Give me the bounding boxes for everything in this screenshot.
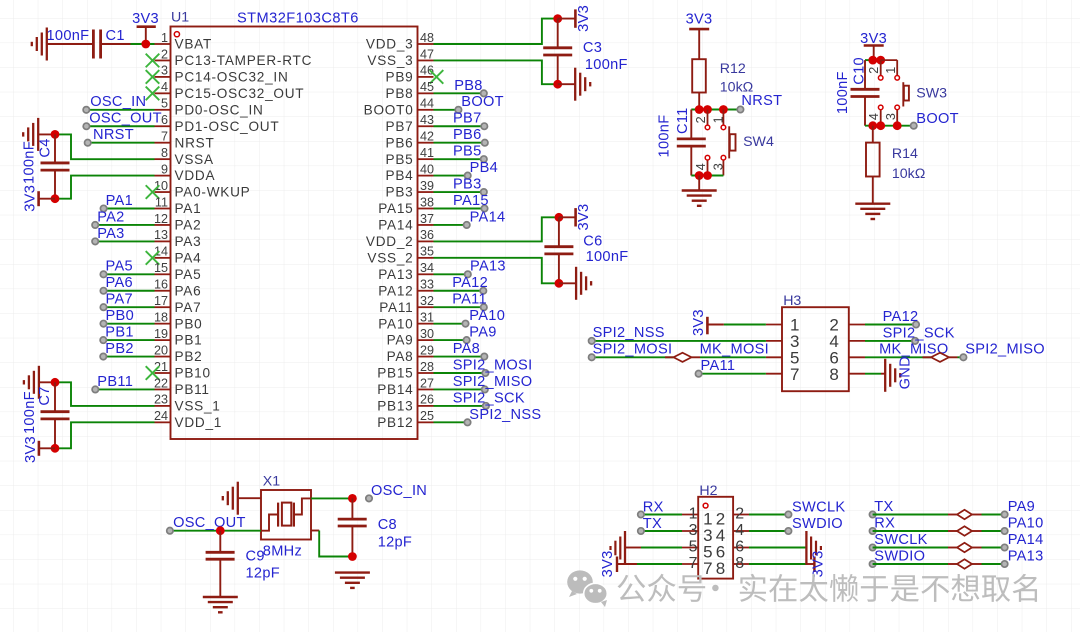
svg-text:7: 7 — [790, 365, 799, 384]
svg-text:100nF: 100nF — [22, 141, 38, 184]
svg-text:PA11: PA11 — [379, 300, 413, 315]
svg-text:3V3: 3V3 — [132, 11, 159, 27]
svg-text:VDD_1: VDD_1 — [175, 415, 223, 430]
junction C4 bottom — [51, 194, 60, 203]
svg-text:PB15: PB15 — [377, 366, 413, 381]
svg-text:PA5: PA5 — [106, 259, 133, 275]
wire NRST row — [691, 109, 740, 111]
svg-text:1: 1 — [711, 116, 725, 123]
wire PA3 — [95, 240, 154, 242]
wire OSC_IN — [86, 109, 154, 111]
net label MK_MOSI — [700, 342, 769, 358]
svg-text:100nF: 100nF — [22, 391, 38, 434]
svg-text:SPI2_MISO: SPI2_MISO — [453, 374, 533, 390]
net label PB5 — [453, 144, 487, 163]
U1 pin 36 VDD_2 — [366, 228, 434, 249]
U1 pin 3 PC14-OSC32_IN — [146, 64, 289, 85]
U1 pin 6 PD1-OSC_OUT — [155, 113, 280, 134]
junction C8 top — [348, 494, 357, 503]
svg-text:PB5: PB5 — [386, 152, 414, 167]
net label PA9 — [463, 325, 496, 344]
resistor R14 — [866, 126, 880, 204]
svg-text:25: 25 — [420, 409, 434, 423]
U1 pin 17 PA7 — [154, 294, 201, 315]
net label PB7 — [453, 111, 487, 130]
net label OSC_OUT — [83, 111, 162, 130]
svg-text:PA10: PA10 — [469, 308, 505, 324]
net label 3V3 left of H2 — [600, 550, 616, 577]
svg-text:11: 11 — [155, 195, 168, 209]
svg-text:PB12: PB12 — [377, 415, 413, 430]
svg-text:PB13: PB13 — [377, 399, 413, 414]
svg-text:OSC_OUT: OSC_OUT — [173, 515, 246, 531]
svg-text:37: 37 — [420, 212, 434, 226]
net label SPI2_SCK — [453, 390, 525, 409]
svg-text:39: 39 — [420, 179, 434, 193]
U1 pin 10 PA0-WKUP — [146, 179, 251, 200]
svg-text:PD1-OSC_OUT: PD1-OSC_OUT — [175, 119, 280, 134]
svg-text:3V3: 3V3 — [691, 309, 707, 336]
net label 3V3 at H3 — [691, 309, 707, 336]
svg-text:6: 6 — [161, 113, 168, 127]
net label 3V3 pin1 — [132, 11, 159, 27]
net label PA9 — [1008, 499, 1035, 515]
wire SPI2_NSS — [434, 421, 468, 423]
H3 pin 5 stub — [766, 349, 800, 368]
junction SW4 pin4 — [703, 171, 712, 180]
wire RX to PA10 — [869, 526, 1007, 535]
power 3V3 at C6 — [559, 208, 576, 226]
svg-text:21: 21 — [154, 360, 168, 374]
watermark wechat icon — [567, 570, 607, 607]
svg-text:3V3: 3V3 — [811, 550, 827, 577]
net label PA11 H3 — [695, 358, 735, 377]
wire PB0 — [104, 323, 155, 325]
wire SPI2_SCK — [434, 405, 486, 407]
U1 pin 12 PA2 — [154, 212, 201, 233]
wire VDD_1 pin24 — [55, 422, 155, 448]
net label BOOT — [455, 94, 504, 113]
wire MK_MOSI — [700, 356, 766, 358]
svg-text:RX: RX — [874, 516, 895, 532]
net label PB1 — [100, 325, 134, 344]
svg-text:30: 30 — [420, 327, 434, 341]
svg-text:PA13: PA13 — [378, 267, 413, 282]
svg-text:2: 2 — [694, 116, 708, 123]
svg-text:10kΩ: 10kΩ — [892, 166, 925, 182]
H2 pin 7 stub — [682, 555, 713, 578]
net label PB2 — [100, 341, 134, 360]
svg-text:22: 22 — [154, 376, 168, 390]
U1 pin 45 PB8 — [386, 80, 434, 101]
svg-text:H2: H2 — [699, 483, 717, 499]
net label NRST at SW4 — [737, 93, 782, 113]
capacitor C10 value 100nF — [835, 71, 851, 114]
svg-text:100nF: 100nF — [585, 57, 628, 73]
net label PB8 — [454, 78, 487, 97]
svg-text:NRST: NRST — [93, 127, 134, 143]
svg-text:9: 9 — [161, 162, 168, 176]
wire PB1 — [103, 339, 154, 341]
U1 pin 40 PB4 — [386, 162, 434, 183]
svg-text:PB2: PB2 — [175, 349, 203, 364]
wire PB2 — [103, 356, 154, 358]
svg-text:8: 8 — [735, 555, 744, 572]
net label 3V3 at C3 — [576, 5, 592, 32]
svg-text:C3: C3 — [583, 40, 602, 56]
wire SPI2_MOSI — [434, 372, 486, 374]
U1 pin 37 PA14 — [378, 212, 434, 233]
U1 pin 28 PB15 — [377, 360, 434, 381]
wire PA15 — [434, 208, 485, 210]
svg-text:3V3: 3V3 — [860, 31, 887, 47]
svg-text:34: 34 — [420, 261, 434, 275]
svg-text:100nF: 100nF — [835, 71, 851, 114]
junction pin1 — [141, 40, 150, 49]
junction SW3 pin4 — [876, 121, 885, 130]
H3 pin 8 stub — [829, 365, 865, 384]
ground at X1 — [223, 482, 261, 515]
svg-text:PA3: PA3 — [175, 234, 202, 249]
wire PA9 — [434, 339, 467, 341]
svg-text:2: 2 — [867, 67, 881, 74]
svg-text:PA10: PA10 — [1008, 516, 1044, 532]
svg-text:100nF: 100nF — [586, 249, 629, 265]
capacitor C7 refdes — [37, 386, 53, 405]
svg-text:42: 42 — [420, 130, 434, 144]
wire H2 pin6 — [749, 547, 806, 549]
capacitor C6 value 100nF — [586, 249, 629, 265]
svg-text:PA5: PA5 — [175, 267, 202, 282]
wire PA6 — [104, 290, 155, 292]
wire VDD_3 pin48 — [434, 19, 558, 44]
svg-text:27: 27 — [420, 376, 434, 390]
U1 pin 31 PA10 — [378, 310, 434, 331]
wire OSC_IN — [311, 497, 352, 499]
resistor R14 refdes — [892, 146, 918, 162]
svg-text:SWDIO: SWDIO — [792, 516, 843, 532]
U1 pin 15 PA5 — [154, 261, 201, 282]
net label SWCLK — [874, 532, 927, 548]
U1 pin 5 PD0-OSC_IN — [155, 97, 264, 118]
svg-text:PA6: PA6 — [175, 283, 202, 298]
power rail 3V3 left of H2 — [611, 531, 626, 572]
net label PA5 — [100, 259, 133, 278]
svg-text:C4: C4 — [38, 138, 54, 157]
junction SW3 pin3 — [893, 121, 902, 130]
net label PA8 — [453, 341, 488, 360]
svg-text:SPI2_MOSI: SPI2_MOSI — [593, 342, 673, 358]
svg-text:PA2: PA2 — [175, 218, 202, 233]
wire MK_MISO — [865, 356, 931, 358]
svg-text:16: 16 — [154, 278, 168, 292]
H3 pin 1 stub — [766, 316, 800, 335]
netflag diamond SPI2_MISO — [923, 353, 958, 362]
wire PB3 — [434, 191, 484, 193]
wire PA11 H3 — [699, 373, 766, 375]
junction C3 bottom — [553, 80, 562, 89]
svg-text:PB2: PB2 — [105, 341, 133, 357]
svg-text:41: 41 — [420, 146, 434, 160]
svg-text:8MHz: 8MHz — [263, 543, 302, 559]
svg-text:46: 46 — [420, 64, 434, 78]
capacitor C9 refdes — [246, 549, 265, 565]
ground at C1 — [32, 28, 47, 61]
net label TX H2 — [638, 516, 662, 534]
net label SPI2_MISO — [960, 342, 1045, 361]
capacitor C7 — [41, 382, 70, 448]
svg-text:PA13: PA13 — [1008, 549, 1044, 565]
net label PA15 — [453, 193, 489, 212]
wire PB7 — [434, 125, 485, 127]
ground below C9 — [203, 597, 238, 612]
switch SW3 pin number 3 — [884, 113, 898, 120]
power 3V3 at C4 — [39, 191, 55, 206]
capacitor C4 refdes — [38, 138, 54, 157]
svg-text:VDD_2: VDD_2 — [366, 234, 414, 249]
H2 pin 5 stub — [682, 539, 713, 562]
junction SW3 pin2 — [876, 56, 885, 65]
svg-text:SW3: SW3 — [916, 86, 947, 102]
switch SW4 pin number 4 — [694, 163, 708, 170]
wire BOOT row — [865, 125, 914, 127]
svg-text:PB6: PB6 — [453, 127, 481, 143]
svg-text:15: 15 — [154, 261, 168, 275]
svg-text:8: 8 — [161, 146, 168, 160]
capacitor C8 — [338, 498, 367, 556]
svg-text:20: 20 — [154, 343, 168, 357]
svg-text:1: 1 — [161, 31, 168, 45]
ground at C6 — [559, 267, 591, 300]
H3 pin 6 stub — [829, 349, 865, 368]
svg-text:PC14-OSC32_IN: PC14-OSC32_IN — [175, 70, 289, 85]
svg-text:3V3: 3V3 — [23, 436, 39, 463]
U1 pin 32 PA11 — [379, 294, 434, 315]
svg-text:1: 1 — [884, 67, 898, 74]
U1 pin 39 PB3 — [386, 179, 434, 200]
U1 pin 34 PA13 — [378, 261, 434, 282]
net label PB4 — [465, 160, 499, 179]
wire X1 pin to gnd — [311, 531, 352, 557]
watermark text — [618, 574, 1037, 602]
net label OSC_IN — [83, 94, 146, 113]
U1 pin 19 PB1 — [154, 327, 202, 348]
svg-text:OSC_IN: OSC_IN — [371, 483, 427, 499]
svg-text:3V3: 3V3 — [686, 12, 713, 28]
switch SW3 refdes — [916, 86, 947, 102]
wire PA7 — [104, 306, 155, 308]
svg-text:PA0-WKUP: PA0-WKUP — [175, 185, 251, 200]
wire BOOT — [434, 109, 459, 111]
svg-text:MK_MOSI: MK_MOSI — [700, 342, 769, 358]
svg-text:4: 4 — [161, 80, 168, 94]
svg-text:PA12: PA12 — [452, 275, 488, 291]
svg-text:100nF: 100nF — [657, 115, 673, 158]
net label NRST — [85, 127, 134, 146]
power 3V3 at H3 pin1 — [707, 317, 724, 335]
wire PB11 — [95, 388, 154, 390]
net label RX H2 — [638, 499, 664, 517]
svg-text:7: 7 — [703, 559, 712, 578]
net label 3V3 at C6 — [576, 204, 592, 231]
U1 pin 4 PC15-OSC32_OUT — [146, 80, 305, 101]
svg-text:PB5: PB5 — [453, 144, 481, 160]
wire RX H2 — [641, 514, 682, 516]
svg-text:2: 2 — [735, 506, 744, 523]
junction SW4 pin1 — [719, 105, 728, 114]
junction C6 bottom — [555, 279, 564, 288]
svg-text:100nF: 100nF — [47, 28, 90, 44]
U1 pin 46 PB9 — [386, 64, 444, 85]
svg-text:GND: GND — [898, 356, 914, 389]
svg-text:PB11: PB11 — [97, 374, 133, 390]
svg-text:PA8: PA8 — [387, 349, 414, 364]
svg-text:PA14: PA14 — [378, 218, 413, 233]
svg-text:SW4: SW4 — [743, 134, 774, 150]
svg-text:43: 43 — [420, 113, 434, 127]
svg-text:12pF: 12pF — [378, 534, 412, 550]
junction C4 top — [51, 130, 60, 139]
ground below C8 — [335, 573, 370, 588]
junction C10/R14 — [868, 121, 877, 130]
net label PA11 — [452, 292, 487, 311]
svg-text:C11: C11 — [675, 107, 691, 134]
svg-text:PB11: PB11 — [175, 382, 210, 397]
svg-text:NRST: NRST — [741, 93, 782, 109]
wire PB6 — [434, 142, 485, 144]
U1 pin 35 VSS_2 — [367, 245, 434, 266]
net label SPI2_NSS — [464, 407, 541, 426]
H2 pin 4 stub — [716, 522, 749, 545]
svg-text:X1: X1 — [263, 474, 280, 490]
U1 pin 41 PB5 — [386, 146, 434, 167]
svg-text:PB9: PB9 — [386, 70, 414, 85]
wire SPI2_MISO — [434, 388, 485, 390]
header H3 refdes — [783, 293, 801, 309]
svg-text:38: 38 — [420, 195, 434, 209]
svg-text:RX: RX — [643, 499, 664, 515]
svg-text:14: 14 — [154, 245, 168, 259]
power 3V3 at R12 — [689, 29, 709, 59]
wire H2 pin7 — [617, 563, 682, 565]
svg-text:40: 40 — [420, 162, 434, 176]
H2 pin 3 stub — [682, 522, 713, 545]
U1 pin 9 VDDA — [155, 162, 216, 183]
junction SW4 pin2 — [703, 105, 712, 114]
net label 3V3 at C4 — [22, 185, 38, 212]
svg-text:7: 7 — [161, 130, 168, 144]
svg-text:VDD_3: VDD_3 — [366, 37, 414, 52]
net label PA7 — [100, 292, 133, 311]
ground at H3 — [881, 359, 900, 392]
U1 pin 25 PB12 — [377, 409, 434, 430]
svg-text:PB4: PB4 — [386, 168, 414, 183]
wire VSSA pin8 — [55, 134, 155, 159]
svg-text:PA14: PA14 — [1008, 532, 1044, 548]
wire H3 pin8 gnd — [865, 373, 881, 375]
wire PA13 — [434, 273, 468, 275]
U1 pin 48 VDD_3 — [366, 31, 434, 52]
svg-text:PA9: PA9 — [387, 333, 414, 348]
net label PA3 — [92, 226, 125, 245]
net label 3V3 at R12 — [686, 12, 713, 28]
switch SW4 pin number 2 — [694, 116, 708, 123]
U1 pin 43 PB7 — [386, 113, 434, 134]
wire PA12 H3 — [865, 324, 916, 326]
ground at C4 — [23, 118, 55, 151]
H3 pin 2 stub — [829, 316, 865, 335]
switch SW4 refdes — [743, 134, 774, 150]
capacitor C6 refdes — [583, 234, 602, 250]
svg-text:SPI2_NSS: SPI2_NSS — [593, 325, 665, 341]
junction C9 top — [216, 526, 225, 535]
svg-text:28: 28 — [420, 360, 434, 374]
header H2 refdes — [699, 483, 717, 499]
svg-text:U1: U1 — [171, 10, 189, 26]
junction C8 bottom — [348, 552, 357, 561]
svg-text:VDDA: VDDA — [175, 168, 216, 183]
wire SWDIO to PA13 — [869, 559, 1007, 568]
svg-text:PB3: PB3 — [386, 185, 414, 200]
switch SW4 pin number 3 — [711, 163, 725, 170]
svg-text:PD0-OSC_IN: PD0-OSC_IN — [175, 102, 264, 117]
svg-text:2: 2 — [161, 47, 168, 61]
wire SW3 top row — [865, 59, 881, 61]
svg-text:3V3: 3V3 — [600, 550, 616, 577]
IC U1 value STM32F103C8T6 — [237, 11, 359, 27]
U1 pin 14 PA4 — [146, 245, 202, 266]
net label SWDIO — [874, 549, 925, 565]
svg-text:NRST: NRST — [175, 135, 215, 150]
svg-text:PA8: PA8 — [453, 341, 480, 357]
capacitor C1 refdes — [106, 28, 125, 44]
net label PA6 — [100, 275, 133, 294]
power 3V3 at C3 — [558, 9, 576, 27]
svg-text:C1: C1 — [106, 28, 125, 44]
net label PA2 — [92, 209, 125, 228]
capacitor C4 value 100nF — [22, 141, 38, 184]
U1 pin 47 VSS_3 — [367, 47, 434, 68]
svg-text:R14: R14 — [892, 146, 918, 162]
U1 pin 11 PA1 — [155, 195, 202, 216]
svg-text:VBAT: VBAT — [175, 37, 213, 52]
svg-text:48: 48 — [420, 31, 434, 45]
svg-text:18: 18 — [154, 310, 168, 324]
U1 pin 13 PA3 — [154, 228, 201, 249]
capacitor C6 — [544, 217, 573, 283]
net label SPI2_NSS — [589, 325, 665, 344]
net label SPI2_MISO — [453, 374, 533, 393]
wire H3 pin1 — [724, 324, 766, 326]
junction C3 top — [553, 14, 562, 23]
wire SPI2_MISO — [958, 356, 964, 358]
H2 pin 2 stub — [716, 506, 749, 529]
svg-text:VSS_1: VSS_1 — [175, 399, 221, 414]
wire PA14 — [434, 224, 467, 226]
H3 pin 7 stub — [766, 365, 800, 384]
svg-text:BOOT: BOOT — [461, 94, 504, 110]
svg-text:3V3: 3V3 — [22, 185, 38, 212]
U1 pin 23 VSS_1 — [154, 393, 221, 414]
svg-text:PA10: PA10 — [378, 316, 413, 331]
power 3V3 at C7 — [39, 441, 55, 456]
svg-text:PA11: PA11 — [701, 358, 736, 374]
wire PB4 — [434, 175, 468, 177]
capacitor C4 — [41, 134, 70, 198]
net label PA14 — [464, 209, 506, 228]
power 3V3 at pin1 — [137, 27, 156, 44]
power rail 3V3 right of H2 — [806, 531, 821, 572]
